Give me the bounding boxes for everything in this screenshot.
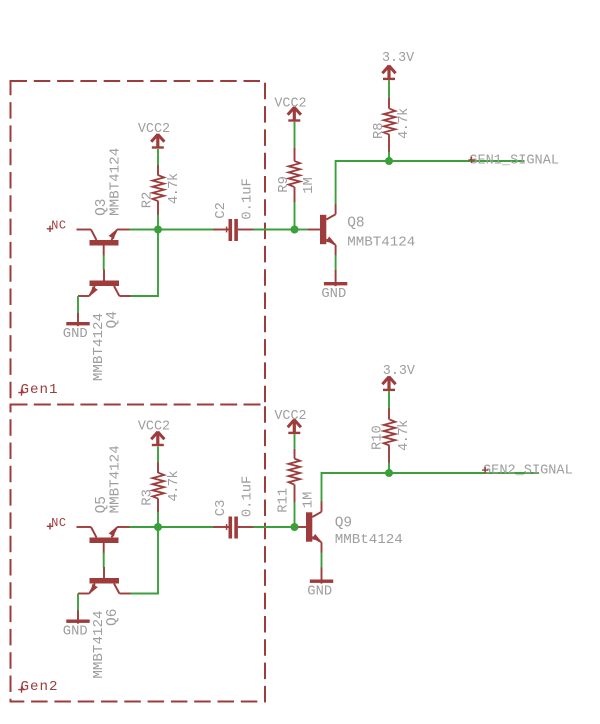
- svg-text:MMBT4124: MMBT4124: [347, 234, 415, 250]
- wire output net GEN2_SIGNAL: [389, 472, 539, 474]
- dashed module frame Gen2: [11, 405, 266, 702]
- junction output node at R10: [385, 469, 393, 477]
- svg-text:MMBt4124: MMBt4124: [335, 532, 403, 548]
- transistor Q3 collector pin (to NC): [77, 229, 92, 231]
- power symbol VCC2 (left): [156, 431, 159, 446]
- wire R9 to VCC2: [294, 122, 296, 148]
- transistor Q4 emitter with arrow: [89, 286, 94, 296]
- svg-text:4.7k: 4.7k: [166, 173, 182, 204]
- transistor Q3 emitter with arrow: [112, 230, 118, 241]
- transistor Q8 emitter pin: [335, 245, 337, 256]
- wire capacitor C2 to bias node: [254, 229, 295, 231]
- resistor R3 zigzag body: [153, 473, 165, 499]
- svg-text:4.7k: 4.7k: [396, 108, 412, 139]
- resistor R11 lower lead: [294, 485, 296, 503]
- wire Q8 emitter to ground: [335, 255, 337, 271]
- transistor Q5 base bar: [90, 538, 119, 544]
- power symbol VCC2 (right): [293, 107, 296, 122]
- transistor Q6 emitter pin: [78, 593, 89, 595]
- svg-text:MMBT4124: MMBT4124: [91, 610, 107, 678]
- wire base net Q5-Q6: [103, 553, 105, 568]
- wire R10 to 3.3V: [388, 391, 390, 408]
- junction bias node at R11: [291, 523, 299, 531]
- svg-text:MMBT4124: MMBT4124: [91, 313, 107, 381]
- transistor Q9 base bar: [306, 512, 312, 541]
- svg-text:0.1uF: 0.1uF: [240, 178, 255, 219]
- resistor R8 lower lead: [388, 135, 390, 152]
- ground symbol GND (Q8): [335, 270, 337, 286]
- capacitor C3 plates: [229, 517, 233, 539]
- svg-text:R11: R11: [276, 488, 291, 513]
- svg-text:GND: GND: [307, 584, 332, 599]
- power symbol VCC2 (left): [156, 134, 159, 149]
- svg-text:GND: GND: [63, 624, 88, 639]
- wire Q4 emitter to ground: [77, 296, 79, 314]
- resistor R9 zigzag body: [289, 161, 301, 187]
- ground symbol GND (Q6): [77, 611, 79, 624]
- wire R8 to 3.3V: [388, 80, 390, 97]
- wire node to capacitor C2: [158, 229, 213, 231]
- transistor Q4 base pin: [103, 270, 105, 281]
- svg-text:NC: NC: [51, 218, 66, 232]
- wire capacitor C3 to bias node: [254, 526, 295, 528]
- transistor Q8 emitter with arrow: [326, 240, 335, 245]
- resistor R10 zigzag body: [384, 420, 396, 446]
- transistor Q9 emitter pin: [321, 542, 323, 553]
- svg-text:Q8: Q8: [347, 216, 364, 232]
- wire R3 to VCC2: [157, 447, 159, 463]
- svg-text:VCC2: VCC2: [138, 122, 170, 137]
- svg-text:GEN1_SIGNAL: GEN1_SIGNAL: [469, 153, 559, 168]
- transistor Q5 emitter with arrow: [112, 527, 118, 538]
- svg-text:Gen1: Gen1: [21, 382, 59, 398]
- svg-text:VCC2: VCC2: [274, 409, 306, 424]
- svg-text:1M: 1M: [302, 177, 317, 194]
- wire bias node to Q8 base: [295, 229, 308, 231]
- wire Q5 emitter to node: [130, 526, 159, 528]
- svg-text:MMBT4124: MMBT4124: [107, 148, 123, 216]
- svg-text:C2: C2: [214, 202, 229, 219]
- svg-text:VCC2: VCC2: [138, 420, 170, 435]
- transistor Q9 collector pin: [321, 501, 323, 512]
- wire output node to R10: [388, 462, 390, 474]
- svg-text:Q9: Q9: [335, 516, 352, 532]
- wire bias node to R11: [294, 502, 296, 528]
- wire output net GEN1_SIGNAL: [389, 160, 525, 162]
- power symbol 3.3V: [387, 65, 390, 80]
- svg-text:R2: R2: [140, 192, 155, 209]
- resistor R2 zigzag body: [153, 175, 165, 201]
- svg-text:3.3V: 3.3V: [382, 51, 414, 66]
- svg-text:GEN2_SIGNAL: GEN2_SIGNAL: [483, 464, 573, 479]
- svg-text:R8: R8: [372, 122, 387, 139]
- svg-text:3.3V: 3.3V: [383, 364, 415, 379]
- transistor Q5 collector pin (to NC): [77, 526, 92, 528]
- capacitor C3 right pin: [238, 526, 254, 528]
- transistor Q4 emitter pin: [78, 295, 89, 297]
- junction node at R3: [154, 523, 162, 531]
- transistor Q8 collector pin: [335, 204, 337, 215]
- transistor Q6 emitter with arrow: [89, 584, 94, 594]
- resistor R9 upper lead: [294, 147, 296, 161]
- svg-text:C3: C3: [214, 500, 229, 517]
- svg-text:4.7k: 4.7k: [166, 471, 182, 502]
- transistor Q5 base pin: [103, 543, 105, 554]
- transistor Q8 collector: [326, 214, 335, 219]
- transistor Q4 collector: [114, 286, 119, 296]
- resistor R2 lead upper: [157, 165, 159, 176]
- resistor R8 zigzag body: [384, 109, 396, 135]
- svg-text:Gen2: Gen2: [21, 679, 59, 695]
- svg-text:VCC2: VCC2: [274, 97, 306, 112]
- transistor Q6 collector pin: [119, 593, 130, 595]
- resistor R2 lead: [157, 201, 159, 214]
- capacitor C2 left pin: [213, 229, 229, 231]
- transistor Q6 base bar: [90, 578, 120, 584]
- wire R2 to VCC2: [157, 149, 159, 165]
- capacitor C2 plates: [229, 219, 233, 241]
- transistor Q9 collector: [312, 512, 321, 517]
- resistor R3 lead upper: [157, 462, 159, 473]
- wire Q4 collector to node: [131, 230, 159, 297]
- svg-text:R9: R9: [277, 176, 292, 193]
- resistor R9 lower lead: [294, 187, 296, 202]
- wire node to R3: [157, 511, 159, 527]
- wire node to R2: [157, 214, 159, 230]
- svg-text:NC: NC: [51, 516, 66, 530]
- svg-text:R3: R3: [140, 489, 155, 506]
- transistor Q6 base pin: [103, 567, 105, 578]
- svg-text:R10: R10: [371, 425, 386, 450]
- resistor R3 lead: [157, 499, 159, 512]
- junction node at R2: [154, 226, 162, 234]
- wire Q6 collector to node: [131, 527, 159, 594]
- wire output node to R8: [388, 151, 390, 161]
- transistor Q3 emitter pin: [117, 229, 130, 231]
- capacitor C2 right pin: [238, 229, 254, 231]
- dashed module frame Gen1: [11, 81, 266, 405]
- transistor Q3 base pin: [103, 246, 105, 257]
- wire R11 to VCC2: [294, 434, 296, 449]
- ground symbol GND (Q9): [321, 568, 323, 584]
- transistor Q9 base pin: [299, 526, 307, 528]
- transistor Q9 emitter with arrow: [312, 537, 321, 542]
- svg-text:GND: GND: [63, 327, 88, 342]
- resistor R8 upper lead: [388, 97, 390, 109]
- svg-text:1M: 1M: [302, 492, 317, 509]
- svg-text:Q4: Q4: [105, 311, 121, 328]
- capacitor C3 left pin: [213, 526, 229, 528]
- transistor Q4 base bar: [90, 281, 120, 287]
- wire Q3 emitter to node: [130, 229, 159, 231]
- resistor R10 upper lead: [388, 408, 390, 420]
- svg-text:Q6: Q6: [105, 609, 121, 626]
- transistor Q4 collector pin: [119, 295, 130, 297]
- resistor R11 zigzag body: [289, 459, 301, 485]
- transistor Q8 base bar: [320, 215, 326, 244]
- wire base net Q3-Q4: [103, 255, 105, 270]
- svg-text:GND: GND: [321, 287, 346, 302]
- wire bias node to R9: [294, 202, 296, 230]
- svg-text:0.1uF: 0.1uF: [240, 476, 255, 517]
- junction output node at R8: [385, 157, 393, 165]
- wire Q6 emitter to ground: [77, 594, 79, 612]
- power symbol 3.3V: [387, 376, 390, 391]
- resistor R10 lower lead: [388, 446, 390, 463]
- transistor Q3 base bar: [90, 240, 119, 246]
- svg-text:4.7k: 4.7k: [396, 420, 412, 451]
- wire Q8 collector to output node: [336, 161, 389, 204]
- ground symbol GND (Q4): [77, 313, 79, 326]
- transistor Q8 base pin: [308, 229, 320, 231]
- svg-text:MMBT4124: MMBT4124: [107, 445, 123, 513]
- resistor R11 upper lead: [294, 449, 296, 459]
- junction bias node at R9: [291, 226, 299, 234]
- transistor Q5 emitter pin: [117, 526, 130, 528]
- wire Q9 collector to output node: [322, 473, 390, 502]
- wire node to capacitor C3: [158, 526, 213, 528]
- power symbol VCC2 (right): [293, 419, 296, 434]
- wire bias node to Q9 base: [295, 526, 299, 528]
- wire Q9 emitter to ground: [321, 553, 323, 569]
- transistor Q6 collector: [114, 584, 119, 594]
